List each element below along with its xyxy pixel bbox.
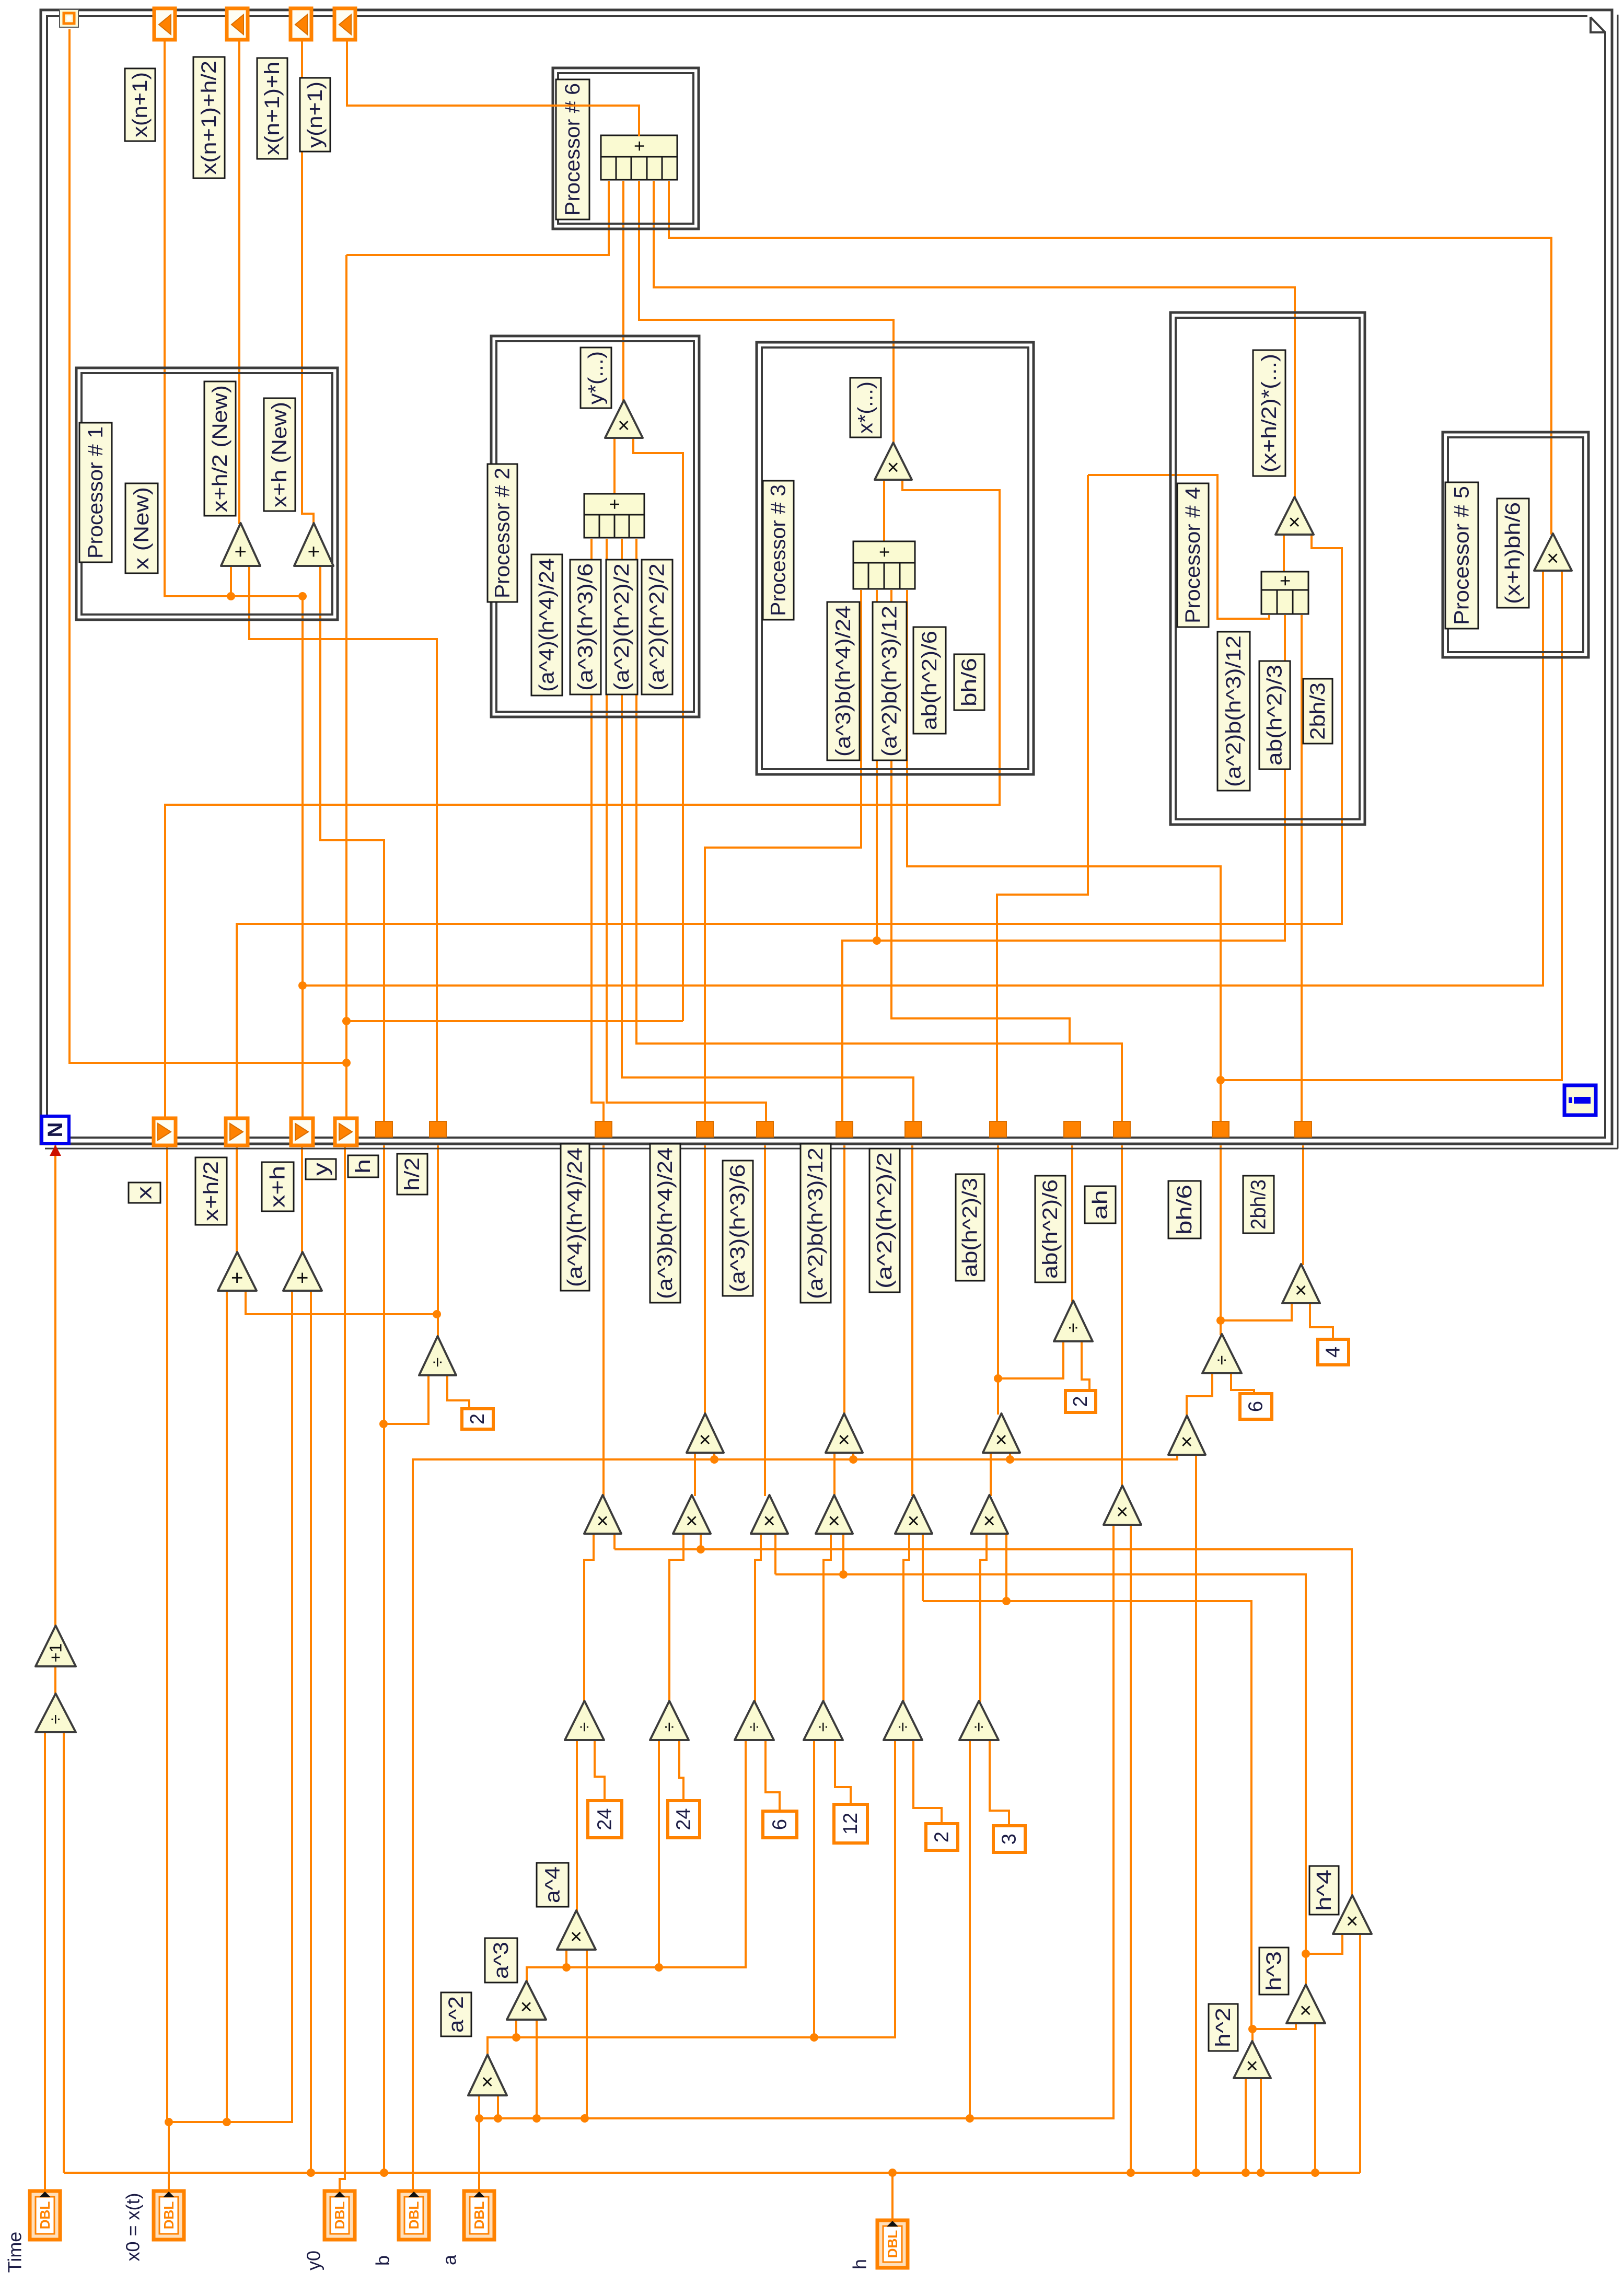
wire: add1 input2 h/2 feed	[249, 567, 437, 1121]
multiply a^3	[507, 1981, 546, 2020]
svg-text:Processor # 3: Processor # 3	[767, 484, 790, 616]
svg-text:2bh/3: 2bh/3	[1306, 682, 1329, 740]
svg-text:24: 24	[594, 1808, 616, 1830]
wire: bh6 branch to 2bh3 mult in1	[1221, 1304, 1292, 1320]
control x0 = x(t)	[154, 2191, 184, 2240]
tunnel (a^3)b(h^4)/24	[697, 1121, 713, 1137]
wire: h4 to multA in2	[613, 1535, 616, 1549]
multiply node x+h/2 times	[1275, 497, 1314, 535]
svg-text:(a^4)(h^4)/24: (a^4)(h^4)/24	[564, 1148, 587, 1287]
wire: h3 mult in2	[1314, 2024, 1316, 2173]
junction a3 a4	[562, 1963, 571, 1972]
multiply upper a3bh4	[687, 1413, 724, 1453]
label Processor # 4	[1177, 483, 1209, 627]
wire: h2 to multE in2	[922, 1535, 924, 1601]
wire: x* multiply output compound	[883, 481, 885, 542]
Processor 3 frame	[757, 342, 1034, 774]
divide node ab(h^2)/6	[1054, 1301, 1093, 1341]
wire: h3 to multC in2	[774, 1535, 776, 1574]
svg-text:÷: ÷	[745, 1722, 764, 1732]
junction h3 out	[1302, 1950, 1310, 1958]
svg-text:DBL: DBL	[332, 2201, 347, 2230]
svg-text:(x+h)bh/6: (x+h)bh/6	[1502, 502, 1525, 604]
label (a^2)(h^2)/2 p2b	[642, 560, 672, 694]
svg-text:y0: y0	[303, 2251, 324, 2270]
shift register left y	[335, 1118, 357, 1145]
label x(n+1)	[125, 68, 155, 141]
wire: x+h add input2 from h line	[310, 1292, 312, 2173]
wire: a line div6 tap	[969, 1741, 971, 2118]
wire: div2 out to multB	[669, 1535, 683, 1702]
shift register left x+h/2	[226, 1118, 248, 1145]
tunnel ah	[1113, 1121, 1130, 1137]
wire: h2 mult output	[1251, 2029, 1254, 2042]
wire: Time to divide	[44, 1733, 46, 2191]
wire: h3 mult output link	[1305, 1954, 1307, 1986]
svg-text:(a^3)b(h^4)/24: (a^3)b(h^4)/24	[654, 1148, 677, 1299]
wire: y* multiply output compound	[613, 438, 616, 494]
label ab(h^2)/3 p4	[1259, 661, 1290, 769]
divide 5 by 2	[884, 1701, 922, 1740]
junction x+h SR3	[298, 981, 307, 990]
multiply upper a2bh3	[826, 1413, 863, 1453]
junction h line h/2	[379, 1420, 388, 1428]
svg-text:(a^2)(h^2)/2: (a^2)(h^2)/2	[646, 563, 669, 691]
junction h control	[888, 2169, 897, 2177]
wire: a3 line	[527, 1741, 746, 1982]
label (a^3)b(h^4)/24 out	[650, 1144, 680, 1303]
svg-text:6: 6	[769, 1819, 791, 1830]
label bh/6 p3	[954, 654, 984, 710]
wire: tunnel abh2_3 to Processor4 cell1	[997, 475, 1088, 1121]
divide 6 by 3	[959, 1701, 999, 1740]
control Time	[30, 2191, 60, 2240]
wire: bh mult in2 h tap	[1195, 1456, 1197, 2173]
multiply C a3h3	[751, 1495, 788, 1534]
wire: h2 mult in2	[1260, 2079, 1262, 2173]
wire: h tunnel down	[383, 1145, 385, 2173]
wire: a3 mult in1	[515, 2021, 517, 2037]
wire: y output tunnel line (vertical from top icon)	[69, 29, 346, 1063]
add node x+h	[294, 523, 333, 566]
svg-text:3: 3	[999, 1834, 1020, 1845]
junction a a4	[581, 2114, 589, 2123]
label Processor # 6	[556, 79, 589, 219]
wire: Processor4 cell1 feed2	[1088, 475, 1269, 619]
svg-text:(a^2)(h^2)/2: (a^2)(h^2)/2	[610, 563, 633, 691]
label x*(...)	[850, 378, 881, 437]
wire: bh6 divide in1 to bh mult	[1187, 1374, 1212, 1417]
constant 2 for abh2	[1065, 1390, 1096, 1412]
wire: upper3 in1	[990, 1454, 992, 1496]
wire: h3 line	[775, 1574, 1306, 1986]
svg-text:y: y	[309, 1163, 332, 1176]
shift register left x	[154, 1118, 176, 1145]
junction x0	[165, 2118, 173, 2126]
constant 4	[1318, 1339, 1349, 1365]
wire: h control up	[891, 2173, 894, 2220]
junction bh6 2bh3	[1216, 1316, 1225, 1325]
svg-text:b: b	[372, 2255, 393, 2266]
svg-text:+: +	[291, 1272, 314, 1284]
junction a2bh3 line	[873, 936, 881, 945]
svg-text:÷: ÷	[46, 1714, 66, 1724]
for-loop frame shadow right	[1617, 15, 1619, 1149]
Processor 5 frame	[1443, 432, 1588, 657]
label a^4	[537, 1863, 569, 1907]
svg-text:24: 24	[673, 1808, 695, 1830]
svg-text:(a^2)(h^2)/2: (a^2)(h^2)/2	[873, 1152, 896, 1289]
wire: upper1 in2 b tap	[713, 1454, 715, 1459]
wire: x+h/2 line from SR2 bottom	[237, 536, 1342, 1118]
wire: h2 line	[923, 1601, 1251, 2029]
svg-text:Processor # 5: Processor # 5	[1451, 486, 1474, 625]
wire: a3 line div2 tap	[658, 1741, 660, 1967]
multiply node 2bh/3	[1282, 1264, 1320, 1303]
shift register left x+h	[291, 1118, 313, 1145]
multiply E a2h2	[895, 1495, 932, 1534]
svg-text:Processor # 4: Processor # 4	[1181, 487, 1204, 623]
Processor 6 frame	[553, 68, 699, 229]
svg-text:÷: ÷	[428, 1358, 448, 1367]
wire: y line to y-star input	[346, 1020, 683, 1022]
svg-text:+: +	[229, 546, 252, 558]
junction h line h3	[1311, 2169, 1319, 2177]
svg-text:+: +	[303, 546, 326, 558]
wire: add2 output to SR3 x(n+1)+h	[302, 40, 314, 524]
tunnel (a^2)(h^2)/2	[905, 1121, 922, 1137]
svg-text:DBL: DBL	[37, 2201, 53, 2230]
constant 24 a	[588, 1801, 622, 1838]
label Processor # 2	[488, 464, 517, 602]
junction a left	[475, 2114, 483, 2123]
i iteration terminal	[1564, 1085, 1596, 1115]
wire: div1 in2 to const 24	[595, 1741, 605, 1802]
wire: Processor6 output over title	[347, 40, 639, 136]
wire: a2 mult in1	[478, 2096, 480, 2118]
divide node N	[36, 1694, 76, 1732]
svg-text:÷: ÷	[814, 1722, 833, 1732]
svg-text:N: N	[44, 1122, 67, 1138]
wire: a2bh3 line tunnel to Processor4 cell2	[842, 615, 1285, 1121]
svg-text:+1: +1	[47, 1643, 65, 1662]
wire: y0 to SR4 initial	[340, 1145, 345, 2191]
control b	[399, 2191, 429, 2240]
junction h line tunnel	[380, 2169, 388, 2177]
label 2bh/3 out	[1243, 1176, 1274, 1233]
wire: div4 in2 to const 12	[835, 1741, 851, 1805]
wire: x+h/2 add output to SR2 initial	[236, 1145, 238, 1253]
svg-text:×: ×	[902, 1515, 925, 1527]
wire: Processor2 cell1 to tunnel	[591, 539, 604, 1121]
label x+h out	[262, 1162, 294, 1211]
wire: x+h line to Processor 5	[303, 572, 1543, 986]
label (a^4)(h^4)/24 out	[561, 1144, 589, 1291]
wire: a4 to divide24	[576, 1741, 578, 1911]
svg-text:6: 6	[1245, 1401, 1267, 1412]
wire: bh6 divide in2 to 6	[1231, 1374, 1254, 1395]
output tunnel icon top left	[60, 9, 78, 27]
multiply h^2	[1234, 2041, 1271, 2078]
svg-text:×: ×	[758, 1515, 781, 1527]
label ab(h^2)/6 p3	[913, 627, 946, 734]
label y(n+1)	[300, 78, 330, 152]
multiply node y*	[605, 400, 643, 438]
wire: abh2_6 divide in2 to 2	[1082, 1342, 1089, 1392]
label (a^2)(h^2)/2 out	[869, 1149, 900, 1292]
label (x+h/2)*(...)	[1253, 350, 1285, 476]
svg-text:÷: ÷	[1212, 1355, 1232, 1365]
junction add1 in1	[227, 592, 235, 600]
svg-text:x+h: x+h	[266, 1166, 289, 1208]
multiply upper abh2	[983, 1413, 1020, 1453]
junction add2 in1	[298, 592, 307, 600]
wire: h line	[64, 2172, 1360, 2174]
svg-text:×: ×	[978, 1515, 1001, 1527]
svg-text:a^4: a^4	[541, 1867, 564, 1903]
wire: upper2 in2 b tap	[852, 1454, 854, 1459]
svg-text:x0 = x(t): x0 = x(t)	[122, 2193, 144, 2261]
label x+h/2 out	[195, 1157, 227, 1225]
add node x+h outside	[283, 1252, 322, 1291]
junction a3 div2	[655, 1963, 663, 1972]
svg-text:+: +	[226, 1272, 249, 1284]
svg-text:×: ×	[1283, 516, 1306, 528]
multiply D a2h3	[816, 1495, 853, 1534]
label h out	[348, 1155, 378, 1177]
wire: h/2 divide input2 to 2	[447, 1376, 469, 1410]
for-loop frame shadow bottom	[45, 1148, 1618, 1150]
multiply B a3h4	[673, 1495, 711, 1534]
svg-text:×: ×	[565, 1930, 588, 1942]
svg-text:+: +	[629, 141, 650, 152]
svg-text:x+h (New): x+h (New)	[268, 402, 291, 507]
wire: Processor6 cell2 from y* multiply	[622, 181, 624, 401]
multiply h^3	[1286, 1985, 1325, 2023]
shift register right x(n+1)	[154, 8, 175, 40]
multiply F abh2	[971, 1495, 1008, 1534]
for-loop dog ear top right	[1587, 14, 1607, 37]
junction h2 out	[1248, 2025, 1257, 2033]
multiply node ah	[1104, 1486, 1141, 1525]
label (a^2)(h^2)/2 p2a	[606, 560, 637, 694]
multiply node x*	[875, 443, 912, 480]
wire: h2 to multF in2	[1005, 1535, 1007, 1601]
svg-text:ab(h^2)/6: ab(h^2)/6	[918, 631, 941, 730]
svg-text:(a^3)(h^3)/6: (a^3)(h^3)/6	[574, 563, 597, 691]
label (a^3)(h^3)/6 out	[723, 1161, 753, 1296]
wire: div3 in2 to const 6	[765, 1741, 780, 1812]
wire: div5 out to multE	[903, 1535, 909, 1702]
divide 4 by 12	[804, 1701, 843, 1740]
constant 6	[763, 1811, 797, 1838]
svg-text:bh/6: bh/6	[1173, 1185, 1196, 1235]
svg-text:÷: ÷	[659, 1722, 679, 1732]
constant 2 for h/2	[462, 1409, 493, 1429]
junction h line bh	[1192, 2169, 1200, 2177]
wire: loop-count N to +1 node	[54, 1145, 56, 1627]
label (a^3)(h^3)/6 p2	[570, 560, 601, 694]
label Processor # 3	[763, 481, 794, 620]
svg-text:bh/6: bh/6	[958, 658, 981, 706]
label y out	[306, 1159, 336, 1179]
junction b upper3	[1006, 1455, 1014, 1464]
label (a^2)b(h^3)/12 p4	[1217, 632, 1250, 791]
junction x0 add	[223, 2118, 231, 2126]
wire: div6 in2 to const 3	[990, 1741, 1009, 1827]
label x	[129, 1183, 160, 1203]
wire: add1 input1 stub	[230, 567, 232, 596]
wire: Processor6 cell5 from Processor5 multiply	[669, 181, 1551, 535]
wire: tunnel a3bh4 to mult upper1	[704, 1145, 706, 1415]
label x(n+1)+h/2	[193, 57, 225, 178]
svg-text:(x+h/2)*(...): (x+h/2)*(...)	[1258, 354, 1281, 472]
wire: bh/6 line Processor3 cell4	[907, 590, 1221, 1121]
junction b upper2	[849, 1455, 857, 1464]
svg-text:+: +	[874, 547, 895, 558]
wire: x0 up to SR1 initial	[166, 1145, 168, 2122]
wire: h2 to h3 in1	[1252, 2024, 1296, 2029]
tunnel ab(h^2)/3	[990, 1121, 1006, 1137]
svg-text:×: ×	[1176, 1435, 1199, 1447]
svg-text:2: 2	[467, 1413, 489, 1424]
svg-text:ab(h^2)/3: ab(h^2)/3	[959, 1178, 982, 1277]
svg-text:x (New): x (New)	[130, 487, 153, 570]
divide node h/2	[419, 1336, 456, 1375]
label Processor # 5	[1445, 482, 1478, 629]
wire: div2 in2 to const 24	[679, 1741, 683, 1802]
svg-text:×: ×	[476, 2076, 499, 2088]
Processor 2 frame	[491, 336, 699, 717]
label (a^4)(h^4)/24 p2	[531, 554, 562, 696]
svg-text:×: ×	[1290, 1284, 1313, 1296]
svg-text:Processor # 1: Processor # 1	[84, 426, 107, 559]
svg-text:x*(...): x*(...)	[854, 381, 877, 434]
tunnel ab(h^2)/6	[1064, 1121, 1081, 1137]
wire: h/2 divide output to tunnel	[437, 1145, 439, 1337]
wire: a4 mult in1	[565, 1951, 567, 1967]
svg-text:x(n+1)+h: x(n+1)+h	[261, 62, 284, 155]
wire: SR1 x(n+1) vertical into Processor 1	[165, 40, 304, 596]
svg-text:h^3: h^3	[1262, 1951, 1285, 1991]
svg-text:x+h/2 (New): x+h/2 (New)	[208, 385, 231, 512]
svg-text:(a^4)(h^4)/24: (a^4)(h^4)/24	[536, 558, 559, 692]
multiply a^2	[468, 2055, 507, 2095]
wire: a control up	[478, 2118, 480, 2191]
wire: Processor4 multiply output stub	[1283, 536, 1285, 573]
svg-text:÷: ÷	[575, 1722, 595, 1732]
svg-text:a: a	[439, 2254, 460, 2265]
svg-text:×: ×	[1111, 1505, 1134, 1517]
label x+h/2 (New)	[204, 381, 236, 516]
label ab(h^2)/6 out	[1035, 1176, 1065, 1282]
for-loop frame inner	[47, 16, 1605, 1138]
svg-text:×: ×	[823, 1515, 846, 1527]
wire: upper2 in1	[833, 1454, 836, 1496]
wire: divide to +1	[54, 1667, 56, 1695]
compound add Processor 6	[601, 135, 677, 180]
wire: Processor6 cell4 from Processor4 multiply	[654, 181, 1295, 498]
tunnel (a^4)(h^4)/24	[595, 1121, 612, 1137]
svg-text:×: ×	[694, 1433, 717, 1445]
add node x+h/2 outside	[218, 1252, 257, 1291]
tunnel h/2	[430, 1121, 446, 1137]
wire: h to divide input2	[63, 1733, 65, 2173]
svg-text:(a^2)b(h^3)/12: (a^2)b(h^3)/12	[878, 606, 901, 757]
svg-text:÷: ÷	[969, 1722, 989, 1732]
wire: tunnel a2h2 to multE	[911, 1145, 913, 1496]
label bh/6 out	[1168, 1181, 1201, 1238]
tunnel (a^3)(h^3)/6	[757, 1121, 773, 1137]
svg-text:÷: ÷	[1063, 1323, 1083, 1333]
wire: 2bh3 mult in2 to 4	[1310, 1304, 1333, 1340]
control h	[877, 2220, 908, 2268]
svg-text:ah: ah	[1089, 1190, 1112, 1220]
svg-text:Time: Time	[4, 2232, 26, 2273]
divide 2 by 24	[650, 1701, 689, 1740]
svg-text:(a^3)(h^3)/6: (a^3)(h^3)/6	[726, 1164, 749, 1292]
Processor 1 frame	[76, 368, 338, 620]
label (a^2)b(h^3)/12 p3	[873, 602, 907, 760]
junction h line h2a	[1242, 2169, 1250, 2177]
add node x+h/2	[221, 523, 260, 566]
compound add Processor 2	[584, 494, 644, 538]
wire: ah mult in2	[1130, 1526, 1132, 2173]
wire: ah mult in1	[1112, 1526, 1115, 2118]
svg-text:(a^2)b(h^3)/12: (a^2)b(h^3)/12	[804, 1148, 827, 1299]
svg-text:x(n+1)+h/2: x(n+1)+h/2	[198, 61, 221, 175]
tunnel h	[376, 1121, 392, 1137]
wire: b line	[413, 1456, 1177, 2191]
svg-text:DBL: DBL	[471, 2201, 487, 2230]
svg-text:×: ×	[591, 1515, 614, 1527]
svg-text:ab(h^2)/6: ab(h^2)/6	[1039, 1179, 1062, 1279]
wire: a2 mult in2	[497, 2096, 499, 2118]
shift register right x(n+1)+h	[291, 8, 311, 40]
svg-text:×: ×	[680, 1515, 703, 1527]
junction h line ah	[1127, 2169, 1135, 2177]
shift register right x(n+1)+h/2	[227, 8, 248, 40]
constant 3	[993, 1826, 1025, 1852]
junction a div6	[966, 2114, 974, 2123]
red arrow at N terminal	[50, 1145, 61, 1156]
wire: x+h/2 add input2 from h/2	[246, 1292, 437, 1314]
wire: a2 line	[488, 1741, 895, 2056]
wire: a3 mult in2	[536, 2021, 538, 2118]
svg-text:×: ×	[1341, 1915, 1364, 1927]
svg-text:+: +	[604, 499, 625, 509]
label Processor # 1	[79, 423, 112, 562]
svg-text:2: 2	[931, 1832, 953, 1842]
divide 3 by 6	[735, 1701, 774, 1740]
tunnel (a^2)b(h^3)/12	[836, 1121, 853, 1137]
label (x+h)bh/6	[1497, 499, 1529, 608]
wire: div5 in2 to const 2	[913, 1741, 942, 1825]
Processor 4 frame	[1170, 312, 1365, 825]
wire: Processor2 cell3 to tunnel	[622, 539, 913, 1121]
junction h4 multB	[697, 1545, 705, 1554]
label h^4	[1309, 1866, 1339, 1915]
label ah out	[1085, 1186, 1116, 1223]
svg-text:×: ×	[833, 1433, 856, 1445]
svg-text:DBL: DBL	[406, 2201, 422, 2230]
wire: h2 mult in1	[1245, 2079, 1247, 2173]
svg-text:+: +	[1274, 575, 1296, 586]
wire: h4 to multB in2	[700, 1535, 702, 1549]
wire: Processor6 cell3 from x* multiply	[639, 181, 894, 444]
junction y out tunnel	[342, 1059, 351, 1067]
multiply A a4h4	[584, 1495, 621, 1534]
